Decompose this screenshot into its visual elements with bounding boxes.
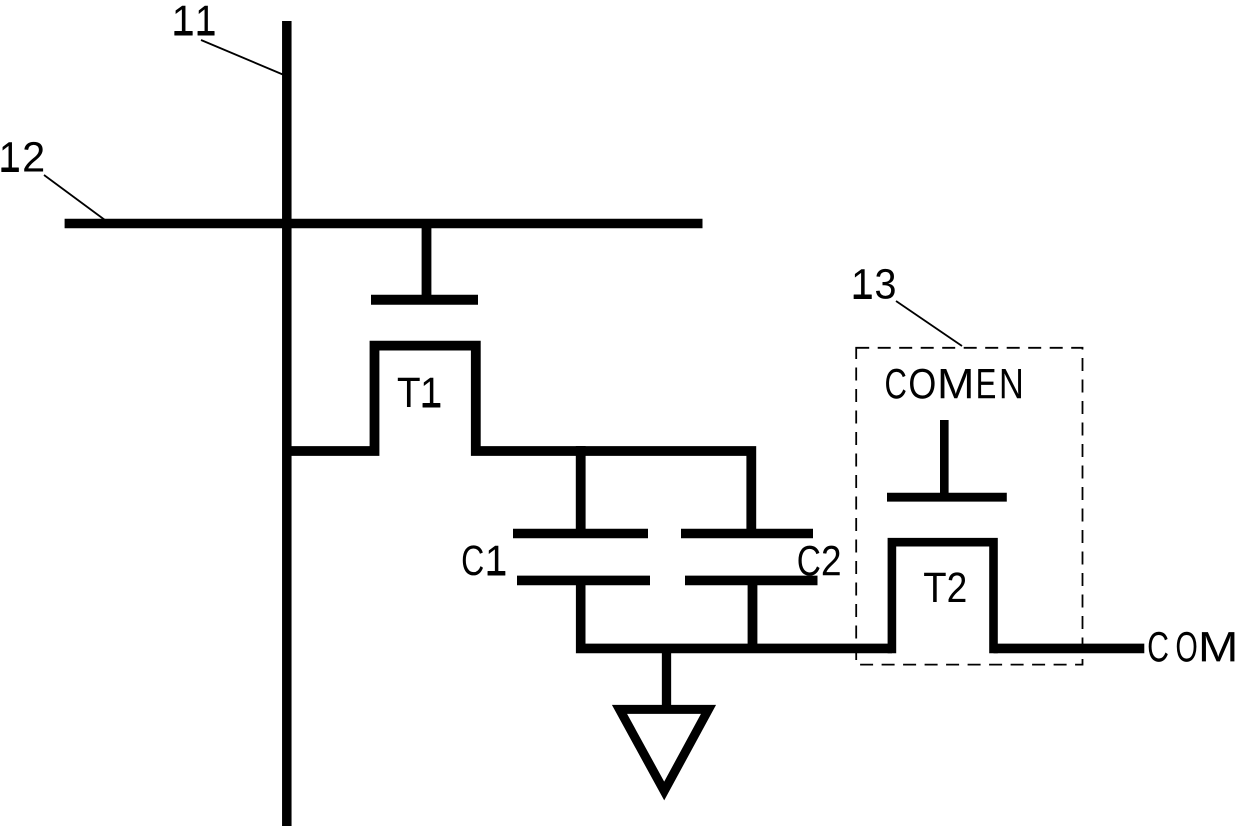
transistor T2 channel xyxy=(892,542,994,653)
leader line for label 13 xyxy=(896,301,962,346)
wire: T1 source/channel/drain node from data line to C2 top stem xyxy=(287,346,752,534)
label T1 xyxy=(398,378,440,407)
ground symbol triangle xyxy=(620,709,709,791)
label C1 xyxy=(463,545,505,575)
wire: data line 11 (vertical) xyxy=(282,21,292,826)
label 11 xyxy=(175,6,214,35)
leader line for label 11 xyxy=(201,40,284,75)
wire: ground stem xyxy=(662,648,671,707)
wire: bottom node from C1 stem to T2 source xyxy=(581,576,892,648)
transistor T1 gate stem xyxy=(422,224,432,300)
capacitor C2 top plate xyxy=(681,529,813,539)
label COM xyxy=(1149,632,1235,662)
capacitor C1 bottom plate xyxy=(517,576,650,586)
label COMEN xyxy=(886,369,1021,399)
transistor T1 gate bar xyxy=(371,295,478,305)
capacitor C1 top plate xyxy=(513,529,648,539)
wire: C1 top stem xyxy=(576,446,586,534)
wire: C2 bottom stem xyxy=(748,576,758,648)
dashed box 13 xyxy=(856,348,1082,665)
wire: gate line 12 (horizontal) xyxy=(65,219,703,229)
label 12 xyxy=(2,142,43,172)
capacitor C2 bottom plate xyxy=(685,576,818,586)
transistor T2 gate stem xyxy=(940,420,949,497)
label C2 xyxy=(798,546,839,576)
transistor T2 gate bar xyxy=(887,493,1007,502)
label 13 xyxy=(854,269,895,299)
leader line for label 12 xyxy=(44,175,111,225)
wire: T2 drain to COM terminal xyxy=(994,644,1145,654)
label T2 xyxy=(924,572,965,602)
